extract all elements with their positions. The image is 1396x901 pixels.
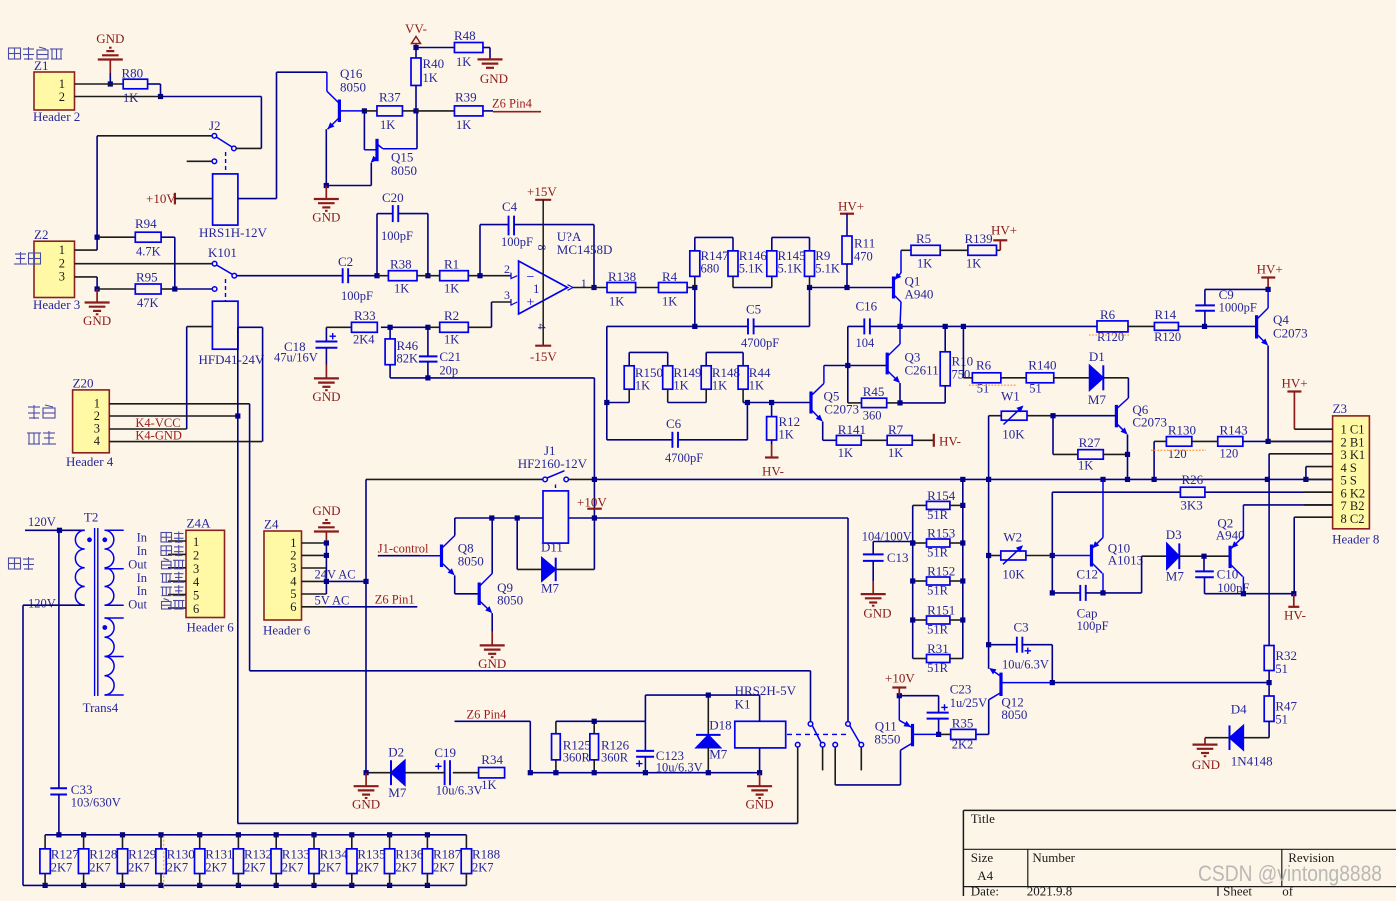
transistor Q1: [894, 250, 934, 326]
svg-text:R139: R139: [965, 231, 993, 246]
capacitor C18: [274, 327, 337, 364]
svg-text:Header 3: Header 3: [33, 297, 80, 312]
svg-text:R32: R32: [1275, 648, 1297, 663]
svg-text:R1: R1: [444, 257, 459, 272]
resistor R34: [453, 752, 505, 792]
svg-text:2K2: 2K2: [952, 738, 974, 752]
svg-text:2K7: 2K7: [167, 861, 189, 875]
resistor R45: [848, 366, 903, 423]
wire Z3 pin6: [1304, 491, 1333, 493]
svg-text:D1: D1: [1089, 349, 1105, 364]
net 24V AC: [315, 568, 369, 585]
svg-text:HV+: HV+: [838, 199, 864, 214]
svg-text:+10V: +10V: [885, 671, 915, 686]
resistor R95: [95, 270, 175, 311]
svg-text:C2073: C2073: [1273, 326, 1308, 341]
svg-text:Header 8: Header 8: [1332, 532, 1379, 547]
resistor R128: [78, 835, 117, 886]
resistor R130: [156, 835, 195, 886]
svg-text:2K7: 2K7: [472, 861, 494, 875]
resistor R146: [728, 248, 767, 288]
relay J1 HF2160-12V: [518, 443, 588, 543]
svg-text:C2: C2: [338, 254, 353, 269]
svg-text:2K7: 2K7: [282, 861, 304, 875]
svg-text:100pF: 100pF: [381, 229, 413, 243]
svg-text:D3: D3: [1166, 527, 1182, 542]
relay HFD41-24V: [199, 301, 265, 367]
resistor R31: [913, 641, 963, 675]
capacitor C9: [1195, 287, 1268, 326]
resistor R1: [417, 257, 511, 296]
svg-text:1: 1: [59, 77, 65, 91]
svg-text:R94: R94: [135, 216, 157, 231]
label volume: [14, 252, 41, 264]
svg-text:R187: R187: [433, 847, 462, 862]
power HV+ (Z3): [1282, 376, 1333, 430]
svg-text:HV+: HV+: [991, 223, 1017, 238]
svg-text:1K: 1K: [749, 379, 764, 393]
resistor R39: [416, 90, 493, 133]
svg-text:1K: 1K: [394, 282, 409, 296]
transistor Q4: [1257, 289, 1308, 441]
wire chain left riser: [604, 326, 609, 405]
diode D1: [1088, 349, 1129, 407]
svg-text:103/630V: 103/630V: [71, 796, 121, 810]
power HV+ (R139): [991, 223, 1017, 251]
labels wire colors: [161, 532, 185, 610]
wires Z4A pin stubs: [168, 541, 186, 608]
capacitor C21: [419, 327, 461, 380]
svg-text:1K: 1K: [444, 282, 459, 296]
svg-text:2K7: 2K7: [128, 861, 150, 875]
svg-text:120: 120: [1220, 447, 1239, 461]
resistor R134: [309, 835, 348, 886]
capacitor C16: [848, 299, 900, 366]
resistor R126: [590, 719, 630, 776]
wire feedback bottom rail to J1: [390, 378, 594, 570]
capacitor C4 feedback: [480, 199, 597, 290]
wire HFD41 left pin to Z20 pin3: [187, 327, 213, 429]
svg-text:2K7: 2K7: [433, 861, 455, 875]
resistor R125: [552, 721, 591, 775]
resistor R148: [701, 352, 743, 402]
ground GND (Z4): [312, 503, 340, 543]
svg-text:R134: R134: [320, 847, 349, 862]
svg-text:1K: 1K: [917, 257, 932, 271]
svg-text:1K: 1K: [966, 257, 981, 271]
svg-text:A940: A940: [905, 287, 934, 302]
resistor R149: [663, 365, 702, 403]
resistor R32: [1264, 646, 1297, 686]
svg-text:M7: M7: [388, 785, 407, 800]
resistor R14: [1154, 307, 1257, 344]
svg-text:5.1K: 5.1K: [778, 262, 803, 276]
svg-text:In: In: [137, 571, 148, 585]
svg-text:24V AC: 24V AC: [315, 568, 356, 582]
svg-text:2K7: 2K7: [395, 861, 417, 875]
resistor R152: [910, 564, 965, 598]
svg-text:8: 8: [535, 245, 549, 251]
orange marker line: [163, 836, 165, 889]
svg-text:4700pF: 4700pF: [741, 336, 779, 350]
svg-text:R34: R34: [481, 752, 503, 767]
resistor R130: [1151, 423, 1218, 480]
resistor R2: [381, 308, 468, 347]
svg-text:C21: C21: [439, 349, 461, 364]
switch J1 contacts: [366, 471, 597, 482]
svg-text:8050: 8050: [340, 80, 366, 95]
svg-text:Z6 Pin4: Z6 Pin4: [492, 97, 533, 111]
wire Z20 pin2 net riser: [109, 327, 240, 823]
ground GND (D4): [1192, 738, 1220, 772]
svg-text:GND: GND: [352, 797, 380, 812]
svg-text:C6: C6: [666, 416, 682, 431]
svg-text:T2: T2: [84, 510, 98, 525]
net 5V AC / Z6 Pin1: [315, 592, 418, 607]
wire +10V rail: [455, 515, 848, 721]
svg-text:360: 360: [863, 409, 882, 423]
svg-text:8 C2: 8 C2: [1341, 512, 1365, 526]
resistor R129: [117, 835, 156, 886]
svg-text:Header 2: Header 2: [33, 109, 80, 124]
svg-text:2K7: 2K7: [51, 861, 73, 875]
transistor Q11: [835, 696, 938, 785]
svg-text:VV-: VV-: [405, 21, 427, 36]
ground GND (Z1): [96, 31, 124, 87]
resistor R131: [195, 835, 234, 886]
svg-text:HFD41-24V: HFD41-24V: [199, 352, 265, 367]
svg-text:+15V: +15V: [527, 184, 557, 199]
resistor R143: [1218, 423, 1341, 461]
svg-text:1K: 1K: [456, 118, 471, 132]
power HV+ (Q4): [1257, 262, 1283, 293]
svg-text:C2073: C2073: [824, 402, 859, 417]
capacitor C123: [636, 721, 703, 775]
resistor R132: [233, 835, 272, 886]
svg-text:R31: R31: [927, 641, 949, 656]
svg-text:Out: Out: [128, 557, 147, 571]
svg-text:C5: C5: [746, 302, 761, 317]
resistor R37: [364, 90, 416, 133]
svg-text:W2: W2: [1003, 530, 1022, 545]
svg-text:R138: R138: [608, 269, 636, 284]
svg-text:Z1: Z1: [34, 58, 48, 73]
resistor stack R154: [913, 488, 966, 522]
relay K1 HRS2H-5V: [735, 683, 797, 775]
svg-text:R135: R135: [357, 847, 385, 862]
svg-text:1K: 1K: [609, 295, 624, 309]
svg-text:4: 4: [193, 575, 200, 589]
svg-text:5.1K: 5.1K: [815, 262, 840, 276]
svg-text:Out: Out: [128, 598, 147, 612]
svg-text:C19: C19: [434, 745, 456, 760]
header Z4: [263, 517, 311, 638]
svg-text:100pF: 100pF: [1077, 619, 1109, 633]
svg-text:W1: W1: [1001, 389, 1020, 404]
net label J1-control: [378, 542, 429, 556]
svg-text:C20: C20: [382, 190, 404, 205]
svg-text:R132: R132: [244, 847, 272, 862]
svg-text:1: 1: [193, 535, 199, 549]
svg-text:8050: 8050: [497, 593, 523, 608]
wire HFD41 right pin to K4-GND riser: [238, 327, 263, 441]
svg-text:1K: 1K: [838, 446, 853, 460]
capacitor C10: [1195, 556, 1296, 596]
ground GND (Q9): [478, 632, 506, 671]
svg-text:51: 51: [1275, 713, 1288, 727]
svg-text:5: 5: [193, 589, 199, 603]
power HV- (C10): [1284, 594, 1306, 623]
power HV- (R12): [762, 445, 784, 479]
wire Z20 pin1: [109, 404, 249, 671]
svg-text:HF2160-12V: HF2160-12V: [518, 456, 588, 471]
diode D2: [364, 745, 407, 801]
svg-text:R4: R4: [662, 269, 678, 284]
resistor R9: [805, 248, 840, 288]
svg-text:HRS1H-12V: HRS1H-12V: [199, 225, 268, 240]
power +10V (J1): [577, 495, 607, 510]
svg-text:Z20: Z20: [73, 376, 94, 391]
svg-text:2K7: 2K7: [357, 861, 379, 875]
svg-text:HV+: HV+: [1282, 376, 1308, 391]
resistor R188: [461, 835, 500, 886]
svg-text:R129: R129: [128, 847, 156, 862]
wire Z3 pin7: [1304, 504, 1333, 506]
svg-text:R37: R37: [379, 90, 401, 105]
potentiometer W2: [986, 530, 1052, 582]
resistor R141: [836, 422, 887, 460]
label remote: [27, 431, 56, 444]
svg-text:R38: R38: [390, 257, 412, 272]
svg-text:J2: J2: [209, 118, 221, 133]
svg-text:GND: GND: [480, 71, 508, 86]
svg-text:R153: R153: [927, 526, 955, 541]
svg-text:120V: 120V: [28, 515, 56, 529]
resistor R10: [900, 326, 973, 403]
wire R2 to op-amp pin3: [468, 302, 511, 327]
labels In/Out: [128, 531, 147, 612]
svg-text:HV-: HV-: [939, 434, 961, 449]
resistor R136: [384, 835, 423, 886]
svg-text:R141: R141: [838, 422, 866, 437]
svg-text:10u/6.3V: 10u/6.3V: [1002, 658, 1049, 672]
switch J2: [97, 118, 261, 174]
svg-text:Trans4: Trans4: [83, 700, 119, 715]
svg-text:D4: D4: [1231, 702, 1247, 717]
wire HRS1H right pin to Q16 collector: [238, 72, 327, 198]
svg-text:1: 1: [59, 243, 65, 257]
header Z4A: [186, 516, 234, 635]
header Z3: [1332, 401, 1379, 547]
wire Z3 pin5: [1306, 478, 1333, 480]
resistor R46: [385, 327, 419, 378]
transistor Q6: [1116, 378, 1167, 480]
svg-text:1K: 1K: [481, 778, 496, 792]
svg-text:GND: GND: [96, 31, 124, 46]
transistor Q8: [420, 518, 484, 594]
svg-text:C13: C13: [887, 550, 909, 565]
diode D4: [1205, 702, 1273, 769]
svg-text:Z4A: Z4A: [187, 516, 211, 531]
svg-text:R136: R136: [395, 847, 424, 862]
resistor R26: [1052, 472, 1341, 513]
resistor R153: [910, 526, 965, 560]
svg-text:1K: 1K: [712, 379, 727, 393]
label speaker: [9, 557, 35, 570]
ground GND (C13): [861, 581, 892, 621]
svg-text:1K: 1K: [423, 71, 438, 85]
switch K101: [208, 245, 237, 301]
svg-text:R10: R10: [952, 354, 974, 369]
resistor R35: [939, 716, 976, 752]
svg-text:R120: R120: [1154, 330, 1181, 344]
resistor R135: [347, 835, 386, 886]
capacitor C13: [862, 530, 916, 582]
svg-text:K1: K1: [735, 697, 751, 712]
svg-text:+: +: [527, 296, 535, 311]
wire main rail (bias): [593, 477, 1341, 482]
ground GND (R48): [478, 48, 509, 87]
svg-text:R151: R151: [927, 603, 955, 618]
wire Q5 collector to Q3 base: [824, 363, 887, 368]
wire main mid rail: [897, 324, 1097, 329]
wire Z1 pin2 net to J2 common: [75, 97, 262, 149]
svg-text:In: In: [137, 544, 148, 558]
net label Z6 Pin4 (bottom): [455, 708, 531, 773]
resistor R147: [690, 237, 733, 287]
svg-text:Z6 Pin1: Z6 Pin1: [375, 592, 415, 606]
wire Q16 base junction: [362, 108, 367, 150]
label 120V bottom: [28, 597, 56, 611]
svg-text:Title: Title: [971, 811, 995, 826]
svg-text:6: 6: [193, 602, 199, 616]
svg-text:HV+: HV+: [1257, 262, 1283, 277]
power +10V (Q11): [885, 671, 915, 696]
svg-text:M7: M7: [709, 747, 728, 762]
resistor R47: [1264, 683, 1297, 738]
transistor Q9: [479, 518, 523, 632]
power +10V (HRS1H): [146, 191, 213, 206]
svg-text:C2611: C2611: [905, 363, 939, 378]
wire Z20 pin4 K4-GND: [109, 429, 262, 443]
wire Z2 pin2 to K101: [75, 263, 213, 265]
resistor R7: [887, 422, 934, 460]
svg-text:GND: GND: [863, 606, 891, 621]
svg-text:1u/25V: 1u/25V: [950, 696, 988, 710]
resistor R127: [40, 835, 79, 886]
svg-text:R154: R154: [927, 488, 956, 503]
wire Z2 pin1 to J2: [75, 136, 100, 250]
wire Z20 pin3 K4-VCC: [109, 416, 186, 430]
svg-text:82K: 82K: [397, 352, 419, 366]
svg-text:8050: 8050: [391, 163, 417, 178]
svg-text:Header 6: Header 6: [187, 620, 235, 635]
wire K1 top rail: [645, 695, 759, 721]
capacitor C3: [986, 620, 1052, 683]
resistor R48: [416, 28, 490, 69]
wire Z3 pin3 K1 net: [1269, 454, 1333, 646]
label 120V top: [28, 515, 56, 529]
resistor R138: [607, 269, 658, 309]
svg-text:R35: R35: [952, 716, 974, 731]
svg-text:10K: 10K: [1002, 427, 1025, 442]
svg-text:1K: 1K: [123, 91, 138, 105]
svg-text:8550: 8550: [874, 732, 900, 747]
resistor R6 (51): [963, 326, 1016, 395]
svg-text:C4: C4: [502, 199, 518, 214]
svg-text:10K: 10K: [1002, 567, 1025, 582]
svg-text:R80: R80: [122, 66, 144, 81]
svg-text:4: 4: [535, 324, 549, 330]
svg-text:R48: R48: [454, 28, 476, 43]
svg-text:1K: 1K: [635, 379, 650, 393]
svg-text:R47: R47: [1275, 699, 1297, 714]
svg-text:GND: GND: [312, 210, 340, 225]
svg-text:680: 680: [701, 262, 720, 276]
svg-text:1K: 1K: [662, 295, 677, 309]
svg-text:2K7: 2K7: [244, 861, 266, 875]
svg-text:R26: R26: [1182, 472, 1204, 487]
svg-text:1K: 1K: [673, 379, 688, 393]
svg-text:3: 3: [59, 270, 65, 284]
svg-text:R27: R27: [1079, 435, 1101, 450]
op-amp U?A MC1458D: [504, 229, 612, 330]
transistor Q12: [976, 668, 1052, 734]
transistor Q5: [811, 366, 859, 441]
capacitor C33: [50, 530, 121, 837]
power +15V: [527, 184, 557, 346]
svg-text:2: 2: [59, 256, 65, 270]
capacitor C19: [405, 745, 483, 798]
ground GND (C18): [312, 365, 340, 404]
svg-text:4700pF: 4700pF: [665, 451, 703, 465]
label overload: [28, 405, 55, 419]
svg-text:GND: GND: [478, 656, 506, 671]
ground GND (K1): [746, 773, 774, 812]
resistor R33: [326, 308, 377, 347]
svg-text:R39: R39: [455, 90, 477, 105]
svg-text:R40: R40: [423, 56, 445, 71]
svg-text:R11: R11: [854, 236, 875, 251]
capacitor C23: [897, 682, 988, 738]
svg-text:1K: 1K: [888, 446, 903, 460]
resistor R151: [910, 603, 965, 637]
wire W2 left rail: [988, 479, 990, 668]
transistor Q15: [326, 111, 417, 186]
svg-text:R188: R188: [472, 847, 500, 862]
svg-text:R130: R130: [1168, 423, 1196, 438]
svg-text:51R: 51R: [927, 546, 949, 560]
svg-text:J1-control: J1-control: [378, 542, 429, 556]
svg-text:GND: GND: [312, 503, 340, 518]
transistor Q3: [887, 326, 939, 403]
svg-text:-15V: -15V: [530, 349, 557, 364]
svg-text:10u/6.3V: 10u/6.3V: [436, 784, 483, 798]
svg-text:470: 470: [854, 250, 873, 264]
wire Z3 pin2: [1268, 440, 1333, 442]
resistor R139: [965, 231, 1001, 271]
net label Z6 Pin4 (top): [492, 97, 541, 112]
wire Z20 pin1 net to contact: [250, 671, 811, 722]
svg-text:5V AC: 5V AC: [315, 593, 350, 607]
svg-text:1K: 1K: [456, 55, 471, 69]
svg-text:100pF: 100pF: [341, 289, 373, 303]
wire Z20 pin2 net: [238, 822, 798, 824]
wire bank top rail: [45, 832, 466, 837]
svg-text:51: 51: [1029, 382, 1042, 396]
svg-text:1K: 1K: [1078, 459, 1093, 473]
svg-text:1K: 1K: [380, 118, 395, 132]
